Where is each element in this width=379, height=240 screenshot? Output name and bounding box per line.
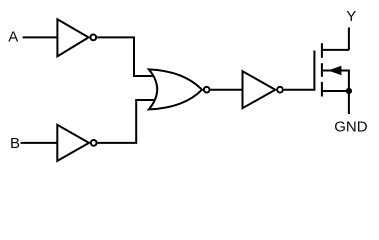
transistor Q1 body arrow (points to channel, N-channel)	[330, 67, 341, 75]
wire NOR output to inverter U4 input	[211, 89, 243, 91]
wire U1 output to NOR top input (right then down then right)	[97, 37, 154, 76]
transistor Q1 body lead wire	[323, 71, 349, 92]
transistor Q1 drain stub	[322, 49, 349, 51]
svg-text:GND: GND	[334, 118, 368, 135]
wire A to inverter U1 input	[23, 36, 58, 38]
inverter U4 triangle	[243, 71, 276, 108]
svg-text:A: A	[8, 28, 18, 45]
wire source to GND	[348, 91, 350, 114]
transistor Q1 channel segment (drain side)	[321, 43, 323, 58]
inverter U2 output bubble	[91, 140, 97, 146]
wire B to inverter U2 input	[21, 142, 58, 144]
wire U2 output to NOR bottom input (right then up then right)	[98, 100, 155, 143]
svg-text:B: B	[10, 135, 20, 152]
svg-text:Y: Y	[346, 8, 356, 25]
NOR gate U3 output bubble	[204, 87, 210, 93]
inverter U4 output bubble	[277, 87, 283, 93]
transistor Q1 source stub	[322, 90, 349, 92]
junction dot (source/body tie)	[346, 88, 352, 94]
wire U4 output to transistor Q1 gate	[284, 89, 316, 91]
transistor Q1 gate bar	[313, 51, 315, 91]
inverter U1 triangle	[57, 19, 88, 56]
inverter U2 triangle	[57, 125, 89, 161]
transistor Q1 channel segment (source side)	[321, 82, 323, 97]
wire drain to node Y	[348, 28, 350, 50]
inverter U1 output bubble	[90, 35, 96, 41]
NOR gate U3 body	[149, 69, 202, 109]
transistor Q1 channel segment (body, middle)	[321, 63, 323, 77]
